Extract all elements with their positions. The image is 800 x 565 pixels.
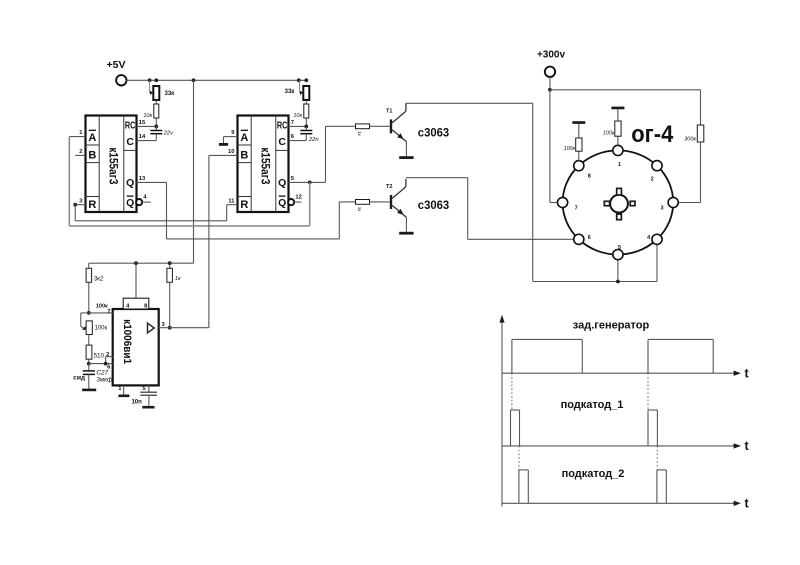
svg-text:2: 2 <box>79 149 82 155</box>
svg-text:2: 2 <box>106 352 109 358</box>
svg-text:15: 15 <box>139 120 146 126</box>
svg-text:C: C <box>278 136 286 148</box>
svg-text:3к2: 3к2 <box>94 277 104 283</box>
svg-text:7: 7 <box>107 309 110 315</box>
svg-text:7: 7 <box>575 205 578 211</box>
svg-text:100к: 100к <box>95 325 108 331</box>
svg-text:10: 10 <box>228 149 234 155</box>
svg-text:RC: RC <box>277 121 288 132</box>
svg-text:R: R <box>88 199 96 211</box>
svg-text:12: 12 <box>295 195 301 201</box>
svg-text:Q: Q <box>126 197 134 209</box>
svg-text:11: 11 <box>228 198 235 204</box>
svg-text:R: R <box>240 199 248 211</box>
svg-text:к1006ви1: к1006ви1 <box>121 319 133 364</box>
svg-text:T2: T2 <box>386 184 392 190</box>
svg-text:6: 6 <box>588 235 591 241</box>
svg-text:RC: RC <box>125 121 136 132</box>
svg-text:5: 5 <box>618 245 621 251</box>
svg-text:2: 2 <box>651 176 654 182</box>
svg-text:33к: 33к <box>165 91 175 97</box>
svg-text:100к: 100к <box>564 146 576 152</box>
svg-text:B: B <box>88 150 96 162</box>
svg-text:зад.генератор: зад.генератор <box>573 319 650 331</box>
svg-text:7: 7 <box>291 120 294 126</box>
svg-text:+300v: +300v <box>537 50 566 61</box>
svg-text:подкатод_2: подкатод_2 <box>562 468 625 480</box>
svg-text:+5V: +5V <box>107 59 126 71</box>
svg-text:22n: 22n <box>308 137 319 143</box>
svg-text:к155аг3: к155аг3 <box>259 147 273 184</box>
svg-text:10к: 10к <box>143 113 152 119</box>
svg-text:3: 3 <box>660 205 663 211</box>
svg-text:22v: 22v <box>163 130 174 136</box>
svg-text:B: B <box>240 150 248 162</box>
svg-text:10к: 10к <box>293 113 302 119</box>
svg-text:Q: Q <box>278 197 286 209</box>
svg-text:8: 8 <box>588 174 591 180</box>
svg-text:к155аг3: к155аг3 <box>107 147 121 184</box>
svg-text:1к: 1к <box>175 276 181 282</box>
svg-text:A: A <box>88 132 96 144</box>
svg-text:подкатод_1: подкатод_1 <box>561 399 624 411</box>
svg-text:c3063: c3063 <box>418 128 449 140</box>
svg-text:300к: 300к <box>684 136 696 142</box>
svg-text:C: C <box>126 136 134 148</box>
svg-text:13: 13 <box>139 176 146 182</box>
svg-text:A: A <box>240 132 248 144</box>
svg-text:100к: 100к <box>96 303 108 309</box>
svg-text:c3063: c3063 <box>418 200 449 212</box>
svg-text:Q: Q <box>278 177 286 189</box>
svg-text:10n: 10n <box>131 399 142 405</box>
svg-text:100к: 100к <box>603 130 615 136</box>
svg-text:3мкф: 3мкф <box>96 376 112 383</box>
svg-text:T1: T1 <box>386 109 392 115</box>
svg-text:14: 14 <box>139 134 146 140</box>
svg-text:Q: Q <box>126 177 134 189</box>
svg-text:смд: смд <box>73 376 85 382</box>
svg-text:33к: 33к <box>285 89 295 95</box>
svg-text:ог-4: ог-4 <box>631 121 674 148</box>
svg-text:1: 1 <box>618 162 621 168</box>
svg-text:510: 510 <box>94 353 105 360</box>
